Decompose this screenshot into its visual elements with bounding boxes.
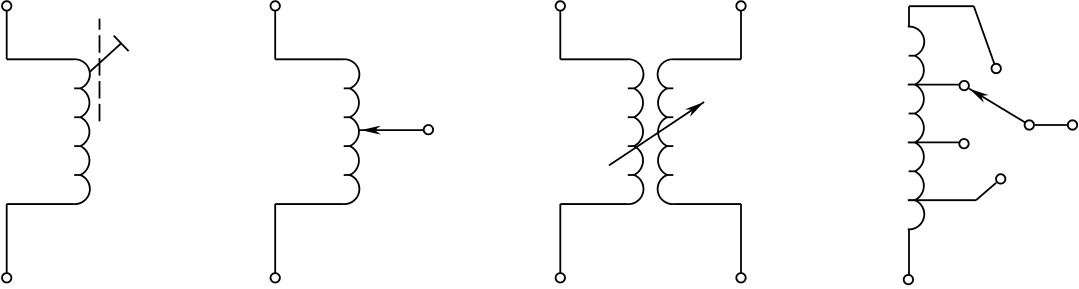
wire: [560, 203, 627, 205]
tap 2 lead: [908, 141, 959, 143]
wire (slanted lead to top terminal): [974, 6, 995, 64]
terminal (wiper of L2): [424, 125, 433, 134]
autotransformer T2 (tapped winding with tap selector): [904, 6, 1078, 284]
terminal (bottom lead of T2): [904, 275, 913, 284]
winding of T2: [908, 27, 924, 230]
terminal (top lead of T2): [992, 64, 1001, 73]
wire: [908, 229, 910, 275]
wire: [908, 6, 910, 27]
terminal (top lead of L2): [271, 1, 280, 10]
core (dashed magnetic core line): [99, 19, 101, 124]
cusp ticks of L2 winding: [344, 87, 350, 89]
wire: [674, 58, 741, 60]
terminal (tap 1): [960, 81, 969, 90]
wire: [7, 58, 74, 60]
terminal (top lead of T1 primary): [556, 1, 565, 10]
cusp ticks of L1 winding: [74, 87, 80, 89]
cusp ticks of T1 primary winding: [628, 87, 634, 89]
tap 3 slanted lead: [976, 183, 996, 201]
wire: [7, 203, 74, 205]
wire: [275, 203, 343, 205]
transformer T1 (variable coupling transformer): [556, 1, 746, 282]
wiper arrowhead: [361, 126, 381, 135]
tap 3 lead: [908, 199, 976, 201]
selector arm: [969, 89, 1025, 123]
wire: [274, 11, 276, 60]
terminal (bottom lead of L1): [2, 273, 11, 282]
cusp ticks of T2 winding: [909, 55, 915, 57]
wire: [559, 204, 561, 273]
terminal (bottom lead of T1 secondary): [736, 273, 745, 282]
wire: [740, 204, 742, 273]
cusp ticks of T1 secondary winding: [667, 87, 673, 89]
terminal (bottom lead of L2): [271, 273, 280, 282]
winding of T1 primary: [627, 59, 643, 204]
variability arrowhead: [685, 102, 704, 117]
wire: [6, 204, 8, 273]
wiper arm of L2: [358, 129, 423, 131]
terminal (bottom lead of T1 primary): [556, 273, 565, 282]
variability arrow shaft: [609, 102, 704, 165]
inductor L2 (variable inductor with movable contact): [271, 1, 434, 282]
wire: [559, 11, 561, 60]
wire: [560, 58, 627, 60]
winding of L1: [73, 59, 89, 204]
wire (top lead run): [909, 5, 974, 7]
terminal (top lead of T1 secondary): [736, 1, 745, 10]
adjustable slug arm: [90, 43, 122, 72]
wire (selector lead): [1035, 124, 1067, 126]
terminal (tap 2): [959, 139, 968, 148]
wire: [674, 203, 741, 205]
wire: [740, 11, 742, 60]
wire: [275, 58, 343, 60]
winding of T1 secondary: [658, 59, 674, 204]
winding of L2: [343, 59, 359, 204]
slug T-bar: [114, 36, 129, 52]
wire: [6, 11, 8, 60]
wire: [274, 204, 276, 273]
terminal (top lead of L1): [2, 1, 11, 10]
tap 1 lead: [908, 84, 959, 86]
terminal (tap 3): [996, 174, 1005, 183]
terminal (selector lead): [1068, 120, 1077, 129]
inductor L1 (slug-tuned variable inductor): [2, 1, 129, 282]
selector arrowhead: [969, 89, 988, 103]
pivot of selector arm: [1025, 120, 1034, 129]
